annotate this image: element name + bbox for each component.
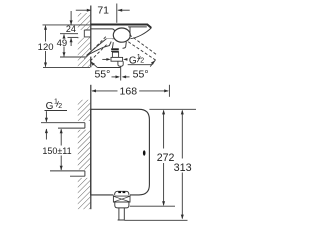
svg-text:G: G [129, 55, 137, 66]
svg-text:313: 313 [174, 162, 192, 174]
svg-text:G: G [46, 101, 54, 112]
svg-text:168: 168 [120, 86, 138, 98]
svg-text:71: 71 [97, 5, 109, 17]
svg-text:120: 120 [38, 42, 54, 53]
svg-text:272: 272 [157, 152, 175, 164]
svg-text:2: 2 [58, 103, 62, 110]
svg-text:55°: 55° [94, 68, 110, 80]
svg-text:24: 24 [66, 24, 76, 34]
svg-text:2: 2 [140, 58, 144, 65]
svg-text:49: 49 [57, 38, 68, 49]
svg-text:150±11: 150±11 [42, 146, 71, 156]
svg-text:55°: 55° [133, 69, 149, 81]
